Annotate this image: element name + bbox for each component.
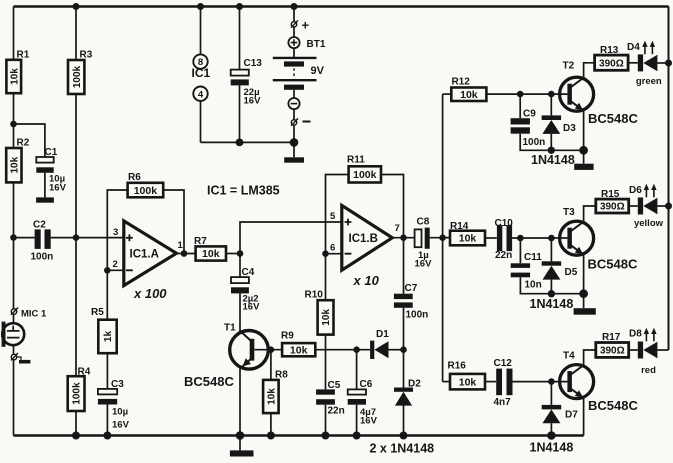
wire pin 6 lead	[326, 253, 342, 255]
wire C2 left lead	[14, 237, 35, 239]
mic shield ground	[17, 357, 21, 360]
wire node to IC1.B pin 5	[240, 222, 342, 254]
junction dots T3 stage	[517, 235, 524, 242]
svg-text:100k: 100k	[72, 382, 83, 405]
wire C2 junction to MIC1	[13, 238, 15, 309]
wire D2 to bottom rail	[403, 405, 405, 435]
wire MIC1 to bottom rail	[13, 360, 15, 436]
wire pin 6 down to R10	[325, 254, 327, 301]
svg-text:IC1.A: IC1.A	[130, 249, 159, 261]
svg-text:D3: D3	[563, 123, 576, 134]
svg-text:BT1: BT1	[307, 39, 326, 50]
junction dot IC1.B output	[400, 234, 407, 241]
capacitor C8 (electrolytic, horizontal)	[415, 216, 433, 269]
wire C13 bottom lead	[239, 85, 241, 142]
wire C1 branch from R1/R2 junction	[14, 124, 45, 157]
junction dot R1/R2/C1	[10, 121, 17, 128]
minus cell circle	[288, 98, 299, 109]
wire D8 to right rail	[657, 349, 668, 351]
wire T4 collector to R17	[584, 350, 596, 366]
mic body	[2, 323, 24, 345]
wire C5 to bottom rail	[325, 405, 327, 436]
svg-text:16V: 16V	[360, 415, 378, 426]
svg-text:R12: R12	[452, 77, 471, 88]
wire right positive rail	[668, 7, 670, 351]
wire D3 bottom lead	[550, 134, 552, 150]
svg-text:16V: 16V	[415, 258, 433, 269]
svg-text:BC548C: BC548C	[588, 111, 638, 126]
svg-text:IC1: IC1	[192, 66, 211, 80]
svg-text:C6: C6	[360, 379, 373, 390]
svg-text:R8: R8	[275, 370, 288, 381]
resistor R8	[263, 370, 288, 414]
svg-text:x 10: x 10	[353, 273, 380, 288]
junction dots top rail	[73, 3, 80, 10]
capacitor C1 (electrolytic)	[36, 147, 66, 194]
capacitor C13 (electrolytic)	[231, 58, 263, 106]
wire ground stem below T3	[583, 294, 585, 309]
junction dots C2 row	[10, 234, 17, 241]
svg-text:R16: R16	[448, 361, 467, 372]
svg-text:+: +	[302, 18, 310, 33]
wire C10 to T3 base	[512, 237, 567, 239]
svg-text:R2: R2	[17, 138, 30, 149]
svg-text:10k: 10k	[460, 89, 478, 101]
wire R11 right down to output pin 7	[381, 175, 404, 238]
diode D7 (1N4148, cathode top)	[530, 405, 579, 455]
svg-text:10k: 10k	[267, 388, 278, 405]
svg-text:390Ω: 390Ω	[600, 202, 625, 213]
wire C8 to R14 node	[430, 237, 450, 239]
junction dot C8/R14 node	[439, 234, 446, 241]
svg-text:R10: R10	[305, 289, 324, 300]
op-amp U1A (IC1.A)	[113, 221, 184, 301]
svg-text:C1: C1	[45, 147, 58, 158]
wire R16 to C12	[485, 381, 496, 383]
wire C7 to D1/D2 node	[403, 308, 405, 388]
capacitor C4 (electrolytic)	[231, 267, 260, 312]
wire R12 left lead	[443, 93, 452, 95]
wire IC1.B output to C8	[392, 237, 415, 239]
svg-text:6: 6	[330, 242, 335, 253]
capacitor C5	[316, 380, 345, 417]
wire C6 to bottom rail	[356, 405, 358, 436]
wire D7 bottom lead	[550, 423, 552, 435]
wire R14 left lead from node	[443, 237, 450, 239]
diode D2 (1N4148, vertical, cathode top)	[394, 378, 421, 405]
svg-text:BC548C: BC548C	[588, 257, 638, 272]
svg-text:green: green	[636, 76, 662, 87]
resistor R7	[194, 236, 226, 261]
svg-text:16V: 16V	[49, 183, 67, 194]
wire R13 to D4	[628, 62, 638, 64]
svg-text:IC1 = LM385: IC1 = LM385	[207, 184, 280, 198]
svg-text:C13: C13	[244, 58, 263, 69]
junction dots mid rail	[236, 139, 244, 147]
wire R11 left down to pin 6	[326, 175, 349, 254]
svg-text:100n: 100n	[31, 251, 54, 262]
svg-text:1N4148: 1N4148	[531, 153, 575, 167]
capacitor C10	[495, 218, 514, 261]
wire C9 top lead	[519, 94, 521, 118]
resistor R12	[451, 77, 486, 102]
resistor R14	[450, 221, 485, 245]
wire IC1 pin 4 to mid rail	[200, 101, 202, 142]
svg-text:1k: 1k	[103, 331, 114, 343]
capacitor C6 (electrolytic)	[348, 379, 378, 427]
svg-text:C4: C4	[242, 267, 255, 278]
junction dot D1/C7 node	[400, 346, 407, 353]
wire T3 collector to R15	[584, 206, 596, 222]
wire output node down to C7	[403, 238, 405, 294]
svg-text:C7: C7	[405, 283, 418, 294]
svg-text:R5: R5	[91, 307, 104, 318]
svg-text:2 x 1N4148: 2 x 1N4148	[370, 442, 435, 456]
wire R6 right to output node	[163, 190, 184, 254]
svg-text:C5: C5	[328, 380, 341, 391]
junction dots right rail	[665, 60, 672, 67]
resistor R2	[6, 138, 30, 183]
junction dot C6 node	[353, 346, 360, 353]
svg-text:100k: 100k	[72, 65, 83, 88]
transistor Q3 (T3 BC548C)	[560, 207, 638, 271]
wire ground stem below T1	[239, 436, 241, 451]
wire bottom ground rail	[14, 434, 584, 437]
wire top supply rail	[14, 5, 669, 7]
diode D3 (1N4148, cathode top)	[531, 115, 576, 167]
svg-text:R14: R14	[450, 221, 469, 232]
svg-text:R11: R11	[347, 155, 365, 166]
resistor R6	[128, 172, 164, 197]
svg-text:16V: 16V	[244, 96, 262, 107]
junction dot T4 stage	[548, 378, 555, 385]
wire C13 top lead	[239, 7, 241, 70]
svg-text:10k: 10k	[202, 248, 220, 260]
wire R8 to bottom rail	[270, 413, 272, 435]
svg-text:2: 2	[113, 259, 118, 270]
wire C12 to T4 base	[513, 381, 568, 383]
wire R14 to C10	[485, 237, 497, 239]
plus cell circle	[288, 37, 299, 48]
svg-text:10µ: 10µ	[112, 407, 128, 418]
wire battery column	[293, 7, 295, 22]
svg-text:1N4148: 1N4148	[530, 440, 574, 454]
resistor R10	[305, 289, 334, 334]
svg-text:10k: 10k	[290, 344, 308, 356]
svg-text:x 100: x 100	[133, 286, 167, 301]
op-amp U1B (IC1.B)	[330, 205, 400, 287]
wire R10 to C5	[325, 335, 327, 390]
wire D3 top lead	[550, 94, 552, 115]
dashed link	[293, 68, 295, 78]
IC1 supply pin 4	[193, 87, 207, 101]
svg-text:10n: 10n	[525, 280, 542, 291]
wire T3 emitter to ground node	[583, 255, 585, 294]
transistor Q4 (T4 BC548C)	[560, 351, 639, 414]
wire R3 top	[75, 7, 77, 61]
wire D4 to right rail	[657, 62, 668, 64]
wire C2 to IC1.A pin 3	[51, 237, 124, 239]
svg-text:R3: R3	[80, 50, 93, 61]
svg-text:C10: C10	[495, 218, 514, 229]
wire MIC1 connector to body	[13, 314, 15, 323]
wire R6 feedback left / R5 column	[107, 190, 127, 320]
svg-text:16V: 16V	[243, 302, 261, 313]
svg-text:C3: C3	[111, 379, 124, 390]
wire junction down to R8	[270, 350, 272, 380]
cell 2 long plate	[273, 79, 317, 81]
wire C11 bottom to emitter row	[520, 277, 583, 293]
wire IC1.A output pin 1 to R7	[176, 253, 196, 255]
svg-text:100n: 100n	[523, 137, 546, 148]
junction dots bottom rail	[72, 432, 80, 440]
wire driver feed column R12-R16	[442, 94, 444, 382]
LED D8 red	[629, 328, 657, 377]
wire R9 to D1 row	[315, 349, 370, 351]
ground below T3	[574, 308, 596, 315]
svg-text:D1: D1	[376, 329, 389, 340]
wire C6 junction to C6	[356, 350, 358, 390]
resistor R9	[281, 331, 315, 357]
wire IC1 pin 8 from top rail	[200, 7, 202, 55]
svg-text:7: 7	[395, 223, 400, 234]
svg-text:BC548C: BC548C	[588, 398, 638, 413]
svg-text:10k: 10k	[459, 233, 477, 245]
svg-text:4n7: 4n7	[494, 397, 512, 408]
cell 1 short plate	[284, 61, 304, 66]
svg-text:100k: 100k	[353, 169, 377, 181]
svg-text:yellow: yellow	[634, 218, 664, 229]
LED D4 green	[627, 41, 662, 87]
resistor R5	[91, 307, 117, 353]
svg-text:D5: D5	[565, 267, 578, 278]
wire D5 bottom lead	[550, 280, 552, 294]
svg-text:22n: 22n	[328, 406, 345, 417]
svg-text:10k: 10k	[321, 309, 332, 326]
cell 1 long plate	[273, 57, 317, 59]
transistor Q2 (T2 BC548C)	[560, 61, 639, 127]
resistor R17	[596, 332, 629, 357]
plus terminal connector	[291, 22, 296, 27]
wire R5 to C3	[106, 353, 108, 389]
LED D6 yellow	[629, 184, 664, 230]
wire D1 anode to C7 column	[389, 349, 404, 351]
capacitor C2	[31, 220, 54, 263]
svg-text:BC548C: BC548C	[184, 374, 234, 389]
wire C3 to bottom rail	[106, 404, 108, 435]
wire T1 emitter to bottom rail	[239, 368, 241, 436]
svg-text:IC1.B: IC1.B	[349, 233, 378, 245]
svg-text:T1: T1	[224, 322, 236, 333]
resistor R13	[595, 45, 629, 70]
svg-text:R6: R6	[128, 172, 141, 183]
svg-text:C11: C11	[524, 252, 542, 263]
svg-text:100k: 100k	[134, 185, 158, 197]
wire T4 emitter to bottom rail	[583, 398, 585, 436]
junction dot pin 6 node	[322, 250, 329, 257]
wire left column top segment	[13, 7, 15, 60]
svg-text:D6: D6	[629, 185, 642, 196]
ground below C1	[36, 197, 54, 202]
svg-text:1: 1	[178, 240, 184, 251]
svg-text:red: red	[641, 365, 656, 376]
svg-text:100n: 100n	[406, 310, 429, 321]
capacitor C9	[511, 109, 546, 148]
svg-text:T3: T3	[563, 207, 575, 218]
wire R17 to D8	[629, 349, 638, 351]
junction dot R7 output node	[237, 250, 244, 257]
wire ground stem below battery	[293, 142, 295, 157]
svg-text:4: 4	[198, 89, 204, 100]
ground below battery	[284, 157, 304, 162]
svg-text:R15: R15	[601, 189, 620, 200]
svg-text:R7: R7	[194, 236, 207, 247]
IC1 supply pin 8	[193, 54, 207, 68]
svg-text:D4: D4	[627, 42, 640, 53]
bottom connector	[11, 354, 16, 359]
wire ground stem below T2	[583, 150, 585, 163]
svg-text:390Ω: 390Ω	[599, 58, 624, 69]
wire MIC1 body to bottom connector	[13, 345, 15, 354]
microphone MIC1	[2, 308, 47, 364]
junction dot T1 base node	[268, 346, 275, 353]
diode D1 (1N4148, horizontal, cathode left)	[370, 329, 389, 359]
minus terminal connector	[291, 120, 296, 125]
junction dot pin 2 node	[104, 267, 111, 274]
wire R7 to node	[226, 253, 240, 255]
wire R1 to R2	[13, 93, 15, 148]
svg-text:T4: T4	[563, 351, 575, 362]
wire C11 top lead	[519, 238, 521, 263]
top connector	[11, 309, 16, 314]
junction dot IC1.A output	[181, 250, 188, 257]
transistor Q1 (T1 BC548C, mirrored)	[184, 322, 268, 389]
svg-text:10k: 10k	[9, 68, 20, 85]
svg-text:R4: R4	[78, 367, 91, 378]
wire pin 2 lead	[107, 269, 124, 271]
diode D5 (1N4148, cathode top)	[530, 261, 578, 311]
svg-text:R17: R17	[602, 332, 621, 343]
svg-text:10k: 10k	[459, 376, 477, 388]
wire T1 base to junction	[254, 349, 282, 351]
wire R2 to C2 junction	[13, 182, 15, 237]
svg-text:C8: C8	[417, 216, 430, 227]
resistor R16	[448, 361, 486, 390]
wire node down to C4	[239, 254, 241, 278]
wire mid supply rail	[201, 141, 295, 143]
svg-text:R9: R9	[281, 331, 294, 342]
resistor R15	[596, 189, 629, 213]
resistor R11	[347, 155, 381, 183]
svg-text:D2: D2	[408, 378, 421, 389]
wire C4 to T1 collector	[239, 293, 241, 332]
wire C9 bottom to emitter row	[520, 134, 583, 151]
capacitor C7	[394, 283, 428, 320]
svg-text:9V: 9V	[311, 65, 325, 77]
ground below T2	[574, 164, 593, 170]
svg-text:C12: C12	[494, 358, 513, 369]
wire R12 to T2 base	[486, 93, 567, 95]
junction dots T2 stage	[517, 91, 524, 98]
svg-text:D7: D7	[565, 410, 578, 421]
svg-text:R1: R1	[17, 50, 30, 61]
wire D6 to right rail	[657, 205, 668, 207]
svg-text:22n: 22n	[495, 250, 512, 261]
wire T2 emitter to ground node	[583, 111, 585, 151]
resistor R1	[6, 50, 29, 94]
ground below T1	[230, 450, 254, 456]
wire D5 top lead	[550, 238, 552, 261]
capacitor C12	[494, 358, 513, 408]
svg-text:16V: 16V	[112, 420, 130, 431]
capacitor C11	[511, 252, 543, 291]
wire C1 to ground	[44, 173, 46, 198]
svg-text:C9: C9	[523, 109, 536, 120]
cell 2 short plate	[284, 85, 304, 90]
resistor R3	[68, 50, 93, 95]
svg-text:C2: C2	[33, 220, 46, 231]
wire D7 top lead	[550, 382, 552, 405]
svg-text:D8: D8	[629, 329, 642, 340]
wire R4 to bottom rail	[75, 411, 77, 436]
wire R3 to R4 through C2 row junction	[75, 94, 77, 376]
battery BT1	[273, 18, 326, 126]
svg-text:T2: T2	[563, 61, 575, 72]
svg-text:3: 3	[113, 227, 118, 238]
svg-text:390Ω: 390Ω	[600, 346, 625, 357]
svg-text:MIC 1: MIC 1	[21, 309, 47, 320]
wire R16 left lead from column	[443, 381, 450, 383]
svg-text:5: 5	[330, 211, 336, 222]
svg-text:10k: 10k	[9, 156, 20, 173]
wire R15 to D6	[629, 205, 638, 207]
svg-text:1N4148: 1N4148	[530, 297, 574, 311]
resistor R4	[68, 367, 91, 412]
capacitor C3 (electrolytic)	[98, 379, 130, 431]
wire T2 collector to R13	[584, 63, 595, 78]
svg-text:R13: R13	[600, 45, 619, 56]
